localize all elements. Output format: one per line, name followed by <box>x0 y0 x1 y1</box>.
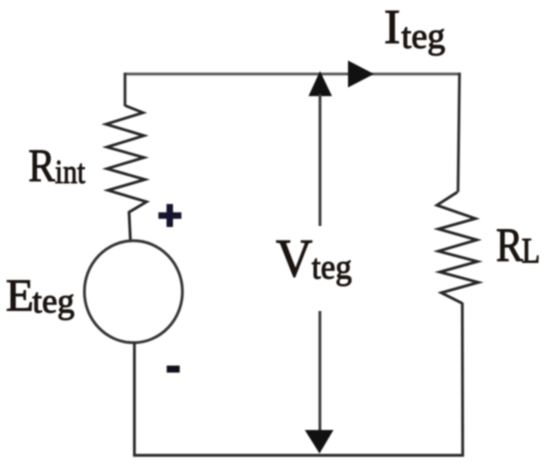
arrow Vteg lower (shaft + down-pointing head) <box>305 311 334 454</box>
label Vteg <box>276 229 352 289</box>
wire right vertical lower <box>461 303 464 457</box>
arrow Vteg upper (up-pointing head + shaft) <box>309 71 333 226</box>
minus sign <box>167 366 180 373</box>
label Iteg <box>384 0 445 56</box>
resistor R2 zigzag (RL) <box>437 192 479 303</box>
wire left vertical upper <box>124 73 127 106</box>
resistor R1 zigzag (Rint) <box>106 106 147 213</box>
label Eteg <box>6 270 75 321</box>
wire bottom horizontal <box>133 454 464 457</box>
wire right vertical upper <box>458 73 460 192</box>
label Rint <box>28 140 85 192</box>
wire source to bottom <box>133 342 136 456</box>
arrow Iteg current (right-pointing) <box>348 61 374 88</box>
plus sign <box>158 204 181 227</box>
wire top horizontal <box>124 73 460 76</box>
wire resistor to source <box>129 212 131 243</box>
label RL <box>496 219 540 272</box>
voltage source U1 circle (Eteg) <box>84 241 182 343</box>
